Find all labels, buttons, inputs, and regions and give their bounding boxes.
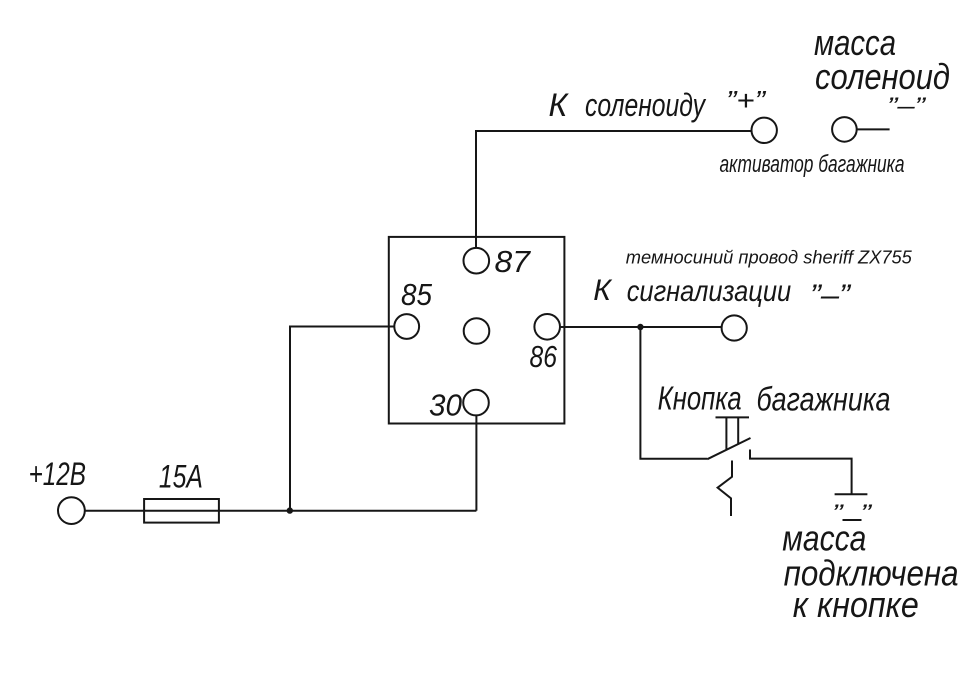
wire: +12V terminal to fuse [85,510,144,512]
relay pin 87 terminal [464,248,490,274]
svg-text:30: 30 [429,387,462,422]
wire: relay pin 87 up and right to trunk activator "+" terminal [476,131,751,248]
svg-text:”–”: ”–” [887,93,926,120]
wire stub from activator "-" terminal [857,128,890,130]
relay center pin terminal [464,318,490,344]
wire: junction down to button left contact [640,327,707,459]
svg-text:Кнопка: Кнопка [658,379,742,416]
svg-text:”–”: ”–” [810,279,852,312]
svg-text:соленоиду: соленоиду [585,87,707,123]
wire: relay pin 85 left and down to +12V bus [290,327,394,511]
wire through fuse [144,510,219,512]
ground bar [835,493,868,495]
button fixed contact and wire to ground [750,450,852,495]
relay pin 30 terminal [463,390,489,416]
terminal: alarm "-" (К сигнализации) [722,315,747,340]
junction: pin85 wire meets +12V bus [287,507,293,513]
button return spring [718,461,732,517]
terminal: +12V [58,497,85,524]
svg-text:соленоид: соленоид [815,56,950,97]
svg-text:”+”: ”+” [726,85,767,116]
svg-text:активатор багажника: активатор багажника [720,151,905,178]
wire: riser up to relay pin 30 [475,415,477,510]
button plunger cap [716,416,750,418]
svg-text:багажника: багажника [757,381,891,418]
wire: relay pin 86 right to alarm terminal [560,326,722,328]
button blade (contact arm) [707,438,750,459]
svg-text:85: 85 [401,277,433,312]
svg-text:15А: 15А [159,459,203,495]
svg-text:К: К [593,274,613,307]
svg-text:к кнопке: к кнопке [793,584,919,625]
fuse F1 body [144,499,219,523]
svg-text:87: 87 [495,244,532,279]
svg-text:К: К [549,87,570,123]
svg-text:+12В: +12В [29,456,86,492]
relay pin 86 terminal [534,314,560,340]
relay K1 body [389,237,565,424]
terminal: trunk activator "-" (масса соленоид) [832,117,857,142]
relay pin 85 terminal [394,314,419,339]
wire: fuse to pin-30 riser [219,510,477,512]
terminal: trunk activator "+" [752,118,777,143]
label underscore of ground quotes [843,519,862,521]
junction on alarm wire [637,324,643,330]
button plunger right stem [737,417,739,444]
button plunger left stem [725,417,727,449]
svg-text:сигнализации: сигнализации [627,275,792,308]
svg-text:86: 86 [530,339,558,374]
svg-text:темносиний провод sheriff ZX75: темносиний провод sheriff ZX755 [626,248,913,268]
